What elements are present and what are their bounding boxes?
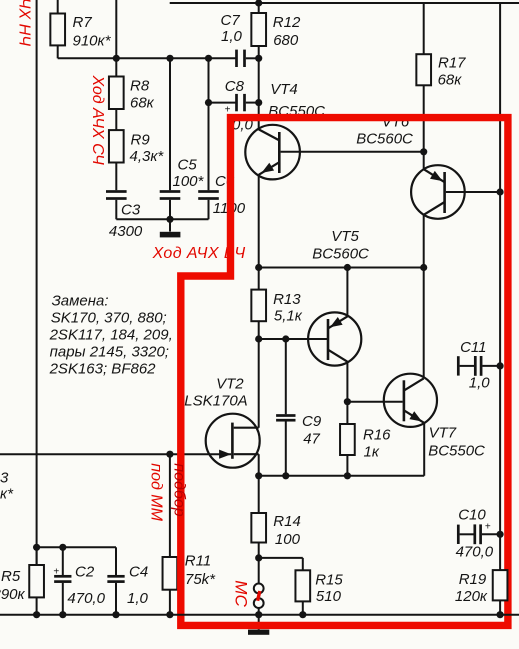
svg-text:2SK117, 184, 209,: 2SK117, 184, 209, — [49, 327, 173, 344]
node C11 right junction — [497, 362, 504, 369]
ground filter — [160, 232, 181, 238]
wire R8 top stub — [115, 0, 117, 77]
transistor VT4 — [245, 81, 423, 179]
svg-text:510: 510 — [316, 588, 342, 605]
svg-text:100*: 100* — [173, 173, 205, 190]
capacitor C8 — [209, 78, 259, 134]
wire gate input with arrow — [0, 450, 231, 459]
text red Ход АЧХ НЧ vertical — [15, 0, 32, 46]
svg-text:68к: 68к — [130, 95, 155, 112]
svg-text:C9: C9 — [302, 413, 322, 430]
svg-text:BC560C: BC560C — [356, 130, 413, 147]
svg-text:МС: МС — [232, 580, 251, 607]
resistor R9 — [109, 130, 164, 165]
resistor R14 — [251, 476, 300, 558]
svg-text:2SK163; BF862: 2SK163; BF862 — [49, 361, 157, 378]
wire C5 top link — [169, 58, 171, 190]
wire right feedback rail — [499, 3, 501, 534]
ground MC — [248, 615, 269, 635]
svg-text:390к: 390к — [0, 586, 26, 603]
svg-text:SK170, 370, 880;: SK170, 370, 880; — [51, 310, 167, 327]
svg-text:47: 47 — [303, 430, 320, 447]
wire C6 bottom — [208, 200, 210, 220]
transistor VT5 — [308, 228, 369, 366]
resistor R16 — [340, 402, 391, 476]
svg-text:BC550C: BC550C — [428, 442, 485, 459]
wire R9-C3 link — [115, 163, 117, 191]
text red Ход АЧХ СЧ vertical — [89, 75, 106, 166]
wire VT5 collector down to VT7 base node — [346, 362, 348, 402]
svg-text:+: + — [225, 105, 231, 116]
wire C6 top link — [208, 58, 210, 190]
svg-text:пары 2145, 3320;: пары 2145, 3320; — [50, 344, 169, 361]
red jumper link on MC connector — [258, 591, 260, 601]
svg-text:Ход АЧХ НЧ: Ход АЧХ НЧ — [15, 0, 32, 46]
svg-text:120к: 120к — [455, 588, 488, 605]
svg-text:R11: R11 — [185, 553, 211, 570]
svg-text:VT7: VT7 — [429, 425, 457, 442]
svg-text:+: + — [53, 566, 59, 577]
svg-text:75k*: 75k* — [185, 571, 216, 588]
capacitor C3 — [106, 190, 143, 240]
svg-text:Ход АЧХ СЧ: Ход АЧХ СЧ — [89, 75, 106, 166]
node C6/C8 branch junction — [205, 55, 212, 62]
node C8 left junction — [205, 99, 212, 106]
wire VT6/VT7 collector line — [420, 215, 427, 379]
svg-text:под ММ: под ММ — [148, 463, 165, 521]
svg-text:Замена:: Замена: — [52, 292, 109, 309]
capacitor C7 — [221, 12, 259, 67]
svg-text:VT2: VT2 — [216, 375, 244, 392]
wire VT4 emitter down — [258, 175, 260, 268]
wire filter ground bus — [116, 216, 208, 232]
svg-text:1,0: 1,0 — [127, 590, 149, 607]
svg-text:680: 680 — [273, 32, 299, 49]
capacitor C10 — [456, 506, 501, 560]
svg-text:1,0: 1,0 — [469, 375, 491, 392]
svg-text:R12: R12 — [273, 14, 301, 31]
resistor R19 — [455, 534, 508, 614]
transistor VT2 JFET — [184, 375, 259, 475]
svg-text:R9: R9 — [131, 131, 151, 148]
wire R15 branch — [259, 558, 303, 570]
resistor R11 — [163, 451, 217, 615]
svg-text:5,1к: 5,1к — [274, 307, 303, 324]
node VT7 base junction — [344, 398, 351, 405]
node R13 bottom / VT5 base junction — [255, 335, 262, 342]
svg-text:C10: C10 — [458, 506, 486, 523]
node VT6 base junction on right rail — [497, 188, 504, 195]
svg-text:4,3к*: 4,3к* — [130, 148, 165, 165]
svg-text:C11: C11 — [460, 339, 486, 356]
node C5 top junction — [166, 55, 173, 62]
text red под ММ vertical — [148, 463, 165, 521]
resistor R8 — [109, 77, 155, 112]
svg-text:4300: 4300 — [109, 223, 143, 240]
svg-text:VT5: VT5 — [331, 228, 359, 245]
node R14 bottom junction — [255, 554, 262, 561]
svg-text:R17: R17 — [438, 55, 466, 72]
svg-text:C4: C4 — [129, 564, 148, 581]
svg-text:C2: C2 — [75, 564, 95, 581]
svg-text:R16: R16 — [363, 427, 391, 444]
svg-text:R15: R15 — [315, 572, 343, 589]
node R8 top junction — [113, 55, 120, 62]
capacitor C11 — [457, 339, 500, 391]
svg-text:к*: к* — [0, 486, 14, 503]
svg-text:R14: R14 — [273, 513, 301, 530]
text left cut label 3 / k* — [0, 470, 14, 503]
connector MC pins — [254, 558, 264, 615]
red boundary frame — [181, 118, 508, 626]
svg-text:R5: R5 — [1, 568, 21, 585]
capacitor C9 — [276, 339, 322, 476]
wire C5 bottom — [169, 200, 171, 220]
svg-text:C7: C7 — [221, 12, 241, 29]
svg-text:910к*: 910к* — [73, 32, 112, 49]
svg-text:LSK170A: LSK170A — [184, 393, 247, 410]
wire bottom bus — [0, 611, 519, 618]
wire upper node bus y=58 — [58, 57, 236, 59]
svg-text:100: 100 — [275, 531, 301, 548]
svg-text:3: 3 — [0, 470, 9, 487]
wire VT5 base — [259, 335, 327, 342]
wire VT2 drain column — [258, 339, 260, 428]
transistor VT7 — [347, 374, 485, 476]
transistor VT6 — [356, 114, 500, 219]
resistor R17 — [416, 3, 466, 152]
svg-text:R7: R7 — [73, 14, 93, 31]
svg-text:C5: C5 — [178, 156, 198, 173]
svg-text:C8: C8 — [225, 78, 245, 95]
text red Ход АЧХ ВЧ — [152, 245, 246, 262]
resistor R13 — [251, 268, 302, 340]
wire top supply bus — [170, 2, 519, 4]
svg-text:68к: 68к — [438, 72, 463, 89]
wire R8-R9 link — [115, 109, 117, 130]
capacitor C2 — [53, 547, 105, 614]
svg-text:C3: C3 — [121, 202, 141, 219]
resistor R12 — [251, 0, 301, 130]
resistor R15 — [295, 570, 343, 614]
svg-text:подбор: подбор — [171, 463, 188, 516]
node C10 right junction — [497, 531, 504, 538]
resistor R7 — [50, 0, 111, 58]
resistor R5 — [0, 547, 44, 603]
svg-text:R19: R19 — [459, 571, 487, 588]
svg-text:470,0: 470,0 — [456, 544, 494, 561]
text replacement notes — [49, 292, 173, 377]
capacitor C5 — [160, 156, 205, 200]
svg-text:1,0: 1,0 — [221, 28, 243, 45]
text red подбор vertical over frame — [171, 463, 188, 516]
svg-text:BC560C: BC560C — [312, 245, 369, 262]
svg-text:1к: 1к — [364, 443, 380, 460]
svg-text:VT4: VT4 — [270, 81, 298, 98]
svg-text:470,0: 470,0 — [67, 590, 105, 607]
svg-text:R8: R8 — [130, 78, 150, 95]
wire source bus y=476 — [255, 472, 424, 479]
wire left vertical rail — [36, 0, 38, 615]
wire C2/C4 top bus — [33, 544, 116, 551]
wire C3 bottom — [115, 200, 117, 220]
svg-text:R13: R13 — [273, 291, 301, 308]
capacitor C6 — [198, 173, 246, 217]
text red МС vertical — [232, 580, 251, 607]
wire VT5 emitter bus y=267 — [255, 264, 424, 271]
node VT4 base / VT6 emitter junction — [420, 148, 427, 155]
capacitor C4 — [107, 547, 148, 614]
